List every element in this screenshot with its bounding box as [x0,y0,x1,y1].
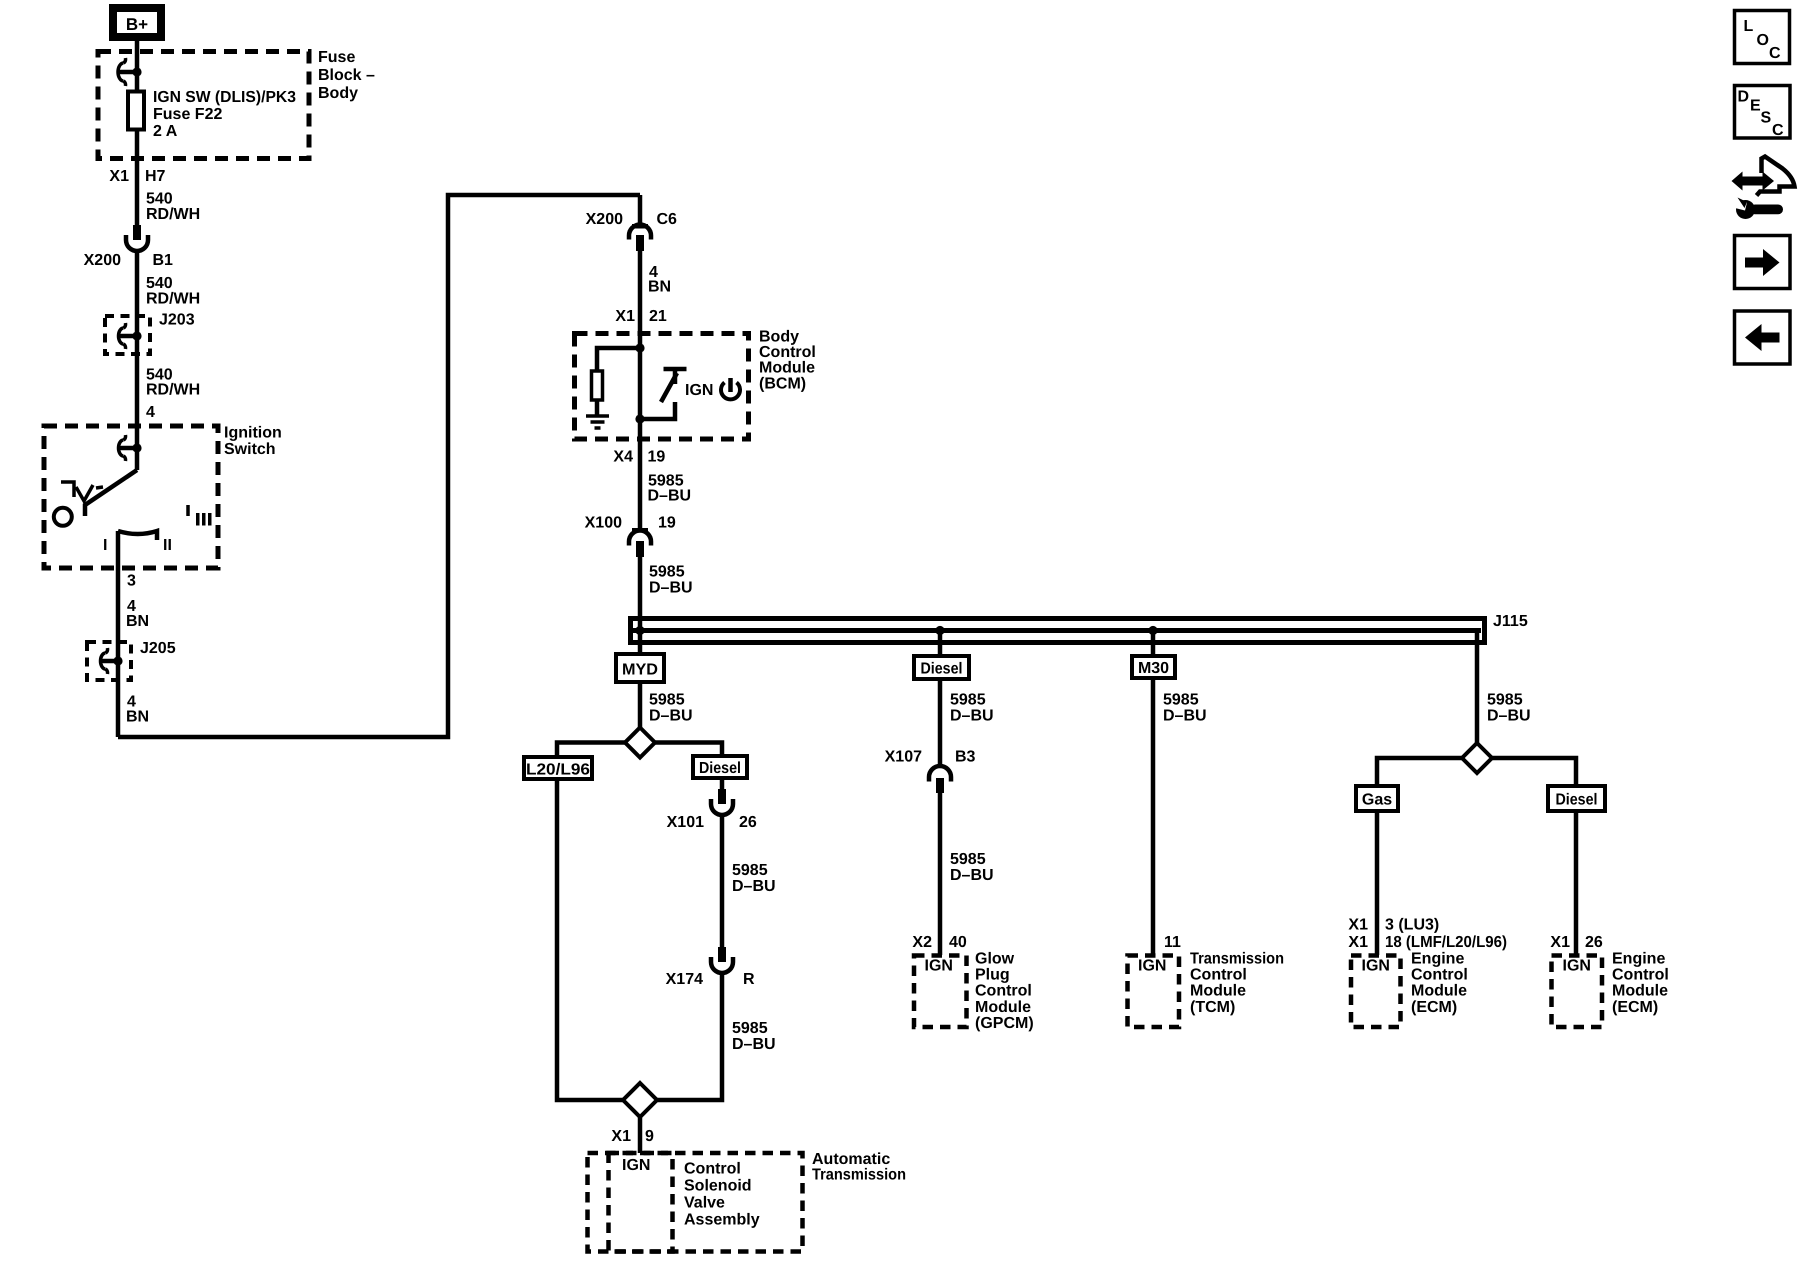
ignition switch contact track I-II [118,531,157,540]
pin label X1 9 [611,1128,654,1145]
svg-text:D–BU: D–BU [732,1036,776,1053]
label position II [163,537,172,554]
wire branch to Diesel tag [654,743,722,755]
svg-text:5985: 5985 [649,692,685,709]
option tag MYD [616,654,664,682]
svg-text:X1: X1 [109,168,129,185]
wire inside BCM [638,348,643,419]
svg-text:L20/L96: L20/L96 [526,762,590,779]
svg-text:26: 26 [739,814,757,831]
splice diamond ECM branch [1462,743,1492,773]
wire 5985 D-BU from X100 to splice pack J115 [638,557,643,630]
svg-text:Ignition: Ignition [224,425,282,442]
svg-text:Control: Control [1411,966,1468,983]
svg-text:IGN: IGN [1563,958,1591,975]
svg-text:19: 19 [658,515,676,532]
wire label 5985 D-BU [1487,692,1531,725]
label ignition switch [224,425,282,459]
junction BCM switch output [635,414,644,423]
svg-text:5985: 5985 [950,851,986,868]
svg-text:(ECM): (ECM) [1612,999,1658,1016]
svg-text:X1: X1 [611,1128,631,1145]
svg-text:Control: Control [975,983,1032,1000]
svg-text:IGN: IGN [622,1157,650,1174]
wire label 5985 D-BU [1163,692,1207,725]
svg-text:Transmission: Transmission [1190,951,1284,968]
power symbol in BCM [721,378,740,399]
ignition switch detent mark [61,482,103,501]
svg-text:Control: Control [1612,966,1669,983]
svg-text:Block –: Block – [318,67,375,84]
wire 5985 D-BU M30 tag to TCM [1151,678,1156,955]
splice J203 hook [119,323,138,349]
splice pack J115 bus conductor [633,628,1481,633]
svg-text:Control: Control [684,1161,741,1178]
svg-text:BN: BN [126,709,149,726]
pin label 11 [1164,934,1181,951]
svg-text:X174: X174 [666,971,703,988]
svg-text:H7: H7 [145,168,166,185]
svg-text:Body: Body [318,85,358,102]
fuse block body internal feed hook [118,58,137,86]
wire label 540 RD/WH [146,367,200,399]
svg-text:Diesel: Diesel [1556,792,1598,809]
label IGN control solenoid [622,1157,650,1174]
wire 540 RD/WH from B+ through fuse to X200 B1 [135,41,140,225]
option tag Diesel (GPCM branch) [914,656,969,679]
resistor in BCM [592,371,603,400]
svg-text:D–BU: D–BU [649,580,693,597]
svg-text:Diesel: Diesel [921,661,963,678]
icon diagnostic tools [1731,157,1795,220]
wire Diesel tag to ECM diesel [1574,811,1579,955]
svg-text:(GPCM): (GPCM) [975,1015,1034,1032]
label IGN ECM gas [1362,958,1390,975]
svg-text:Switch: Switch [224,441,276,458]
ECM diesel IGN dashed box [1552,956,1603,1028]
svg-text:I: I [103,537,107,554]
wire label 5985 D-BU [950,692,994,725]
splice J205 hook [101,648,119,674]
label IGN in BCM [685,382,713,399]
wire resistor to ground [595,400,600,416]
svg-text:D–BU: D–BU [732,878,776,895]
svg-text:Module: Module [1190,983,1246,1000]
wire 4 BN routing loop to X200 C6 [118,195,640,737]
ground symbol in BCM [586,416,609,428]
svg-text:IGN SW (DLIS)/PK3: IGN SW (DLIS)/PK3 [153,89,296,106]
option tag L20/L96 [524,757,592,779]
wire label 4 BN [648,264,671,296]
BCM dashed box [575,334,749,440]
svg-text:C: C [1772,122,1784,139]
label control solenoid valve assembly [684,1161,760,1229]
icon back arrow button [1735,311,1791,364]
svg-text:5985: 5985 [732,1020,768,1037]
wire branch to Diesel tag (ECM) [1491,758,1576,784]
BCM ignition sense switch [640,369,687,419]
svg-text:D–BU: D–BU [1163,708,1207,725]
pin label X1 26 [1550,934,1602,951]
wire label 5985 D-BU [648,473,692,505]
svg-text:Gas: Gas [1362,792,1392,809]
svg-text:Assembly: Assembly [684,1212,760,1229]
svg-text:Diesel: Diesel [699,760,741,777]
control solenoid valve assembly IGN dashed box [609,1153,673,1252]
svg-text:D–BU: D–BU [648,488,692,505]
option tag Diesel (transmission branch) [693,756,747,778]
junction BCM input [635,343,644,352]
svg-text:IGN: IGN [1362,958,1390,975]
svg-text:RD/WH: RD/WH [146,382,200,399]
label IGN GPCM [925,958,953,975]
label automatic transmission [812,1151,906,1184]
svg-text:5985: 5985 [1487,692,1523,709]
connector X100 19 [629,528,651,557]
svg-text:18 (LMF/L20/L96): 18 (LMF/L20/L96) [1385,934,1507,951]
BCM pull-down branch wire [597,348,640,371]
svg-text:4: 4 [146,404,155,421]
svg-text:IGN: IGN [685,382,713,399]
svg-text:Automatic: Automatic [812,1151,890,1168]
ignition switch position III mark [188,505,212,526]
wire stub into connector X200 C6 [638,195,643,224]
fuse block - body dashed box [98,52,309,159]
svg-text:X200: X200 [586,211,623,228]
svg-text:(TCM): (TCM) [1190,999,1235,1016]
svg-text:5985: 5985 [950,692,986,709]
svg-text:Engine: Engine [1411,951,1464,968]
wire branch to L20/L96 tag [557,743,626,756]
svg-text:D–BU: D–BU [950,867,994,884]
svg-text:Module: Module [759,359,815,376]
label engine control module (ECM) diesel [1612,951,1669,1016]
svg-text:D: D [1738,89,1750,106]
svg-text:Engine: Engine [1612,951,1665,968]
wire bus end to ECM splice diamond [1475,630,1480,744]
svg-text:3: 3 [127,573,136,590]
svg-text:X107: X107 [885,749,922,766]
connector X107 B3 [885,749,976,793]
wire label 540 RD/WH [146,191,200,224]
wire label 4 BN [126,598,149,630]
wire bus to Diesel tag (GPCM branch) [938,630,943,654]
label J203 [159,312,195,329]
junction J203 [132,331,141,340]
splice pack J115 bus box [631,619,1485,643]
label J205 [140,640,176,657]
wire bus to MYD tag [638,630,643,653]
label engine control module (ECM) gas [1411,951,1468,1016]
svg-text:C6: C6 [657,211,678,228]
wire Gas tag to ECM [1375,811,1380,955]
wire bus to M30 tag [1151,630,1156,654]
svg-text:X1: X1 [1348,934,1368,951]
svg-text:BN: BN [126,613,149,630]
svg-text:IGN: IGN [925,958,953,975]
pin label X2 40 [912,934,966,951]
icon DESC button [1735,86,1791,140]
wire L20/L96 branch to lower splice diamond [557,779,624,1100]
splice J205 dashed box [87,642,131,680]
wire 5985 D-BU X107 to GPCM [938,792,943,955]
svg-text:(ECM): (ECM) [1411,999,1457,1016]
svg-text:E: E [1750,98,1761,115]
wire label 5985 D-BU [950,851,994,884]
svg-text:(BCM): (BCM) [759,376,806,393]
svg-text:40: 40 [949,934,967,951]
svg-text:Valve: Valve [684,1195,725,1212]
label body control module (BCM) [759,329,816,393]
svg-text:C: C [1769,45,1781,62]
wire 5985 D-BU MYD tag to splice diamond [638,682,643,728]
svg-text:RD/WH: RD/WH [146,291,200,308]
svg-text:J203: J203 [159,312,195,329]
wire label 5985 D-BU [649,692,693,725]
svg-text:Solenoid: Solenoid [684,1178,752,1195]
battery positive terminal B+ [113,8,161,37]
svg-text:Fuse: Fuse [318,49,355,66]
junction bus at M30 tap [1148,626,1157,635]
svg-text:RD/WH: RD/WH [146,206,200,223]
svg-text:X200: X200 [84,252,121,269]
svg-text:D–BU: D–BU [1487,708,1531,725]
icon forward arrow button [1735,236,1791,289]
pin labels X1 3 (LU3) / X1 18 (LMF/L20/L96) [1348,917,1507,952]
wire label 4 BN [126,694,149,726]
svg-text:Module: Module [1411,983,1467,1000]
wire 5985 D-BU from BCM to X100 [638,419,643,531]
svg-text:M30: M30 [1138,660,1169,677]
svg-text:X1: X1 [615,308,635,325]
svg-text:X1: X1 [1550,934,1570,951]
GPCM IGN dashed box [914,956,967,1028]
svg-text:5985: 5985 [1163,692,1199,709]
wire splice diamond to control solenoid valve assembly [638,1117,643,1153]
svg-text:Control: Control [1190,966,1247,983]
junction ignition switch input [132,443,141,452]
junction J205 [113,656,122,665]
wire 540 RD/WH from X200 B1 to ignition switch [135,251,140,470]
svg-text:L: L [1744,18,1754,35]
wire label 5985 D-BU [649,564,693,597]
wire 4 BN ignition switch output [116,531,121,737]
wire label 540 RD/WH [146,275,200,307]
label IGN TCM [1138,958,1166,975]
connector X200 B1 [84,225,173,269]
svg-text:Transmission: Transmission [812,1167,906,1184]
wire 5985 D-BU Diesel tag to X107 [938,679,943,766]
svg-text:X4: X4 [613,449,633,466]
automatic transmission dashed box [588,1153,803,1252]
wire label 5985 D-BU [732,862,776,895]
wire branch to Gas tag [1377,758,1463,784]
svg-text:S: S [1761,110,1772,127]
svg-text:Glow: Glow [975,951,1015,968]
svg-text:21: 21 [649,308,667,325]
connector X101 26 [667,789,757,831]
label fuse F22 [153,89,296,140]
connector X174 R [666,947,755,988]
svg-text:19: 19 [648,449,666,466]
svg-text:O: O [1757,32,1769,49]
fuse F22 2A symbol [128,92,144,130]
svg-text:9: 9 [645,1128,654,1145]
pin label X1 H7 [109,168,165,185]
pin label 4 [146,404,155,421]
junction bus at MYD tap [635,626,644,635]
splice diamond MYD branch [625,728,655,758]
svg-text:J205: J205 [140,640,176,657]
svg-text:3 (LU3): 3 (LU3) [1385,917,1439,934]
splice J203 dashed box [105,316,150,354]
svg-text:II: II [163,537,172,554]
svg-text:D–BU: D–BU [649,708,693,725]
svg-text:MYD: MYD [622,662,658,679]
svg-text:J115: J115 [1493,613,1528,630]
svg-text:B3: B3 [955,749,976,766]
lower splice diamond [623,1083,657,1117]
svg-text:B1: B1 [153,252,174,269]
svg-text:R: R [743,971,755,988]
svg-text:D–BU: D–BU [950,708,994,725]
option tag M30 [1132,656,1175,678]
wire 5985 D-BU X101 to X174 [720,815,725,948]
ignition switch blade [85,470,137,516]
option tag Diesel (ECM branch) [1548,786,1605,811]
svg-text:Module: Module [1612,983,1668,1000]
svg-text:2 A: 2 A [153,123,178,140]
label fuse block - body [318,49,375,102]
svg-text:Plug: Plug [975,966,1010,983]
svg-text:11: 11 [1164,934,1181,951]
ignition switch dashed box [44,426,218,568]
svg-text:26: 26 [1585,934,1603,951]
wire 5985 D-BU X174 to lower splice diamond [656,973,722,1100]
pin label 3 [127,573,136,590]
svg-text:5985: 5985 [649,564,685,581]
connector X200 C6 [586,211,677,251]
svg-text:BN: BN [648,279,671,296]
svg-text:Module: Module [975,999,1031,1016]
label position I [103,537,107,554]
icon LOC button [1735,11,1790,64]
junction bus at diesel tap [935,626,944,635]
ignition switch pivot [54,508,72,526]
wire label 5985 D-BU [732,1020,776,1053]
svg-text:5985: 5985 [732,862,768,879]
svg-text:X101: X101 [667,814,704,831]
svg-text:B+: B+ [126,15,148,34]
svg-text:X1: X1 [1348,917,1368,934]
svg-text:X2: X2 [912,934,932,951]
junction in fuse block [132,67,141,76]
wire Diesel tag to connector X101 [720,778,725,790]
label IGN ECM diesel [1563,958,1591,975]
ignition switch input hook [119,435,138,461]
pin label X1 21 [615,308,666,325]
svg-text:Control: Control [759,344,816,361]
svg-text:IGN: IGN [1138,958,1166,975]
ECM gas IGN dashed box [1351,956,1401,1028]
label transmission control module (TCM) [1190,951,1284,1016]
option tag Gas [1356,786,1398,811]
wire 4 BN from X200 C6 to BCM [638,250,643,348]
pin label X4 19 [613,449,665,466]
TCM IGN dashed box [1128,956,1180,1028]
svg-text:Fuse F22: Fuse F22 [153,106,222,123]
svg-text:540: 540 [146,191,173,208]
label glow plug control module (GPCM) [975,951,1034,1032]
label J115 [1493,613,1528,630]
pin label X100 19 [585,515,676,532]
svg-text:X100: X100 [585,515,622,532]
